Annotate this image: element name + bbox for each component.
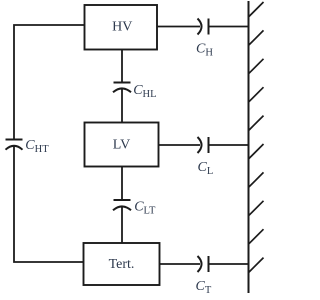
- svg-text:HV: HV: [112, 19, 132, 34]
- svg-text:LV: LV: [113, 138, 130, 153]
- svg-text:Tert.: Tert.: [109, 257, 135, 272]
